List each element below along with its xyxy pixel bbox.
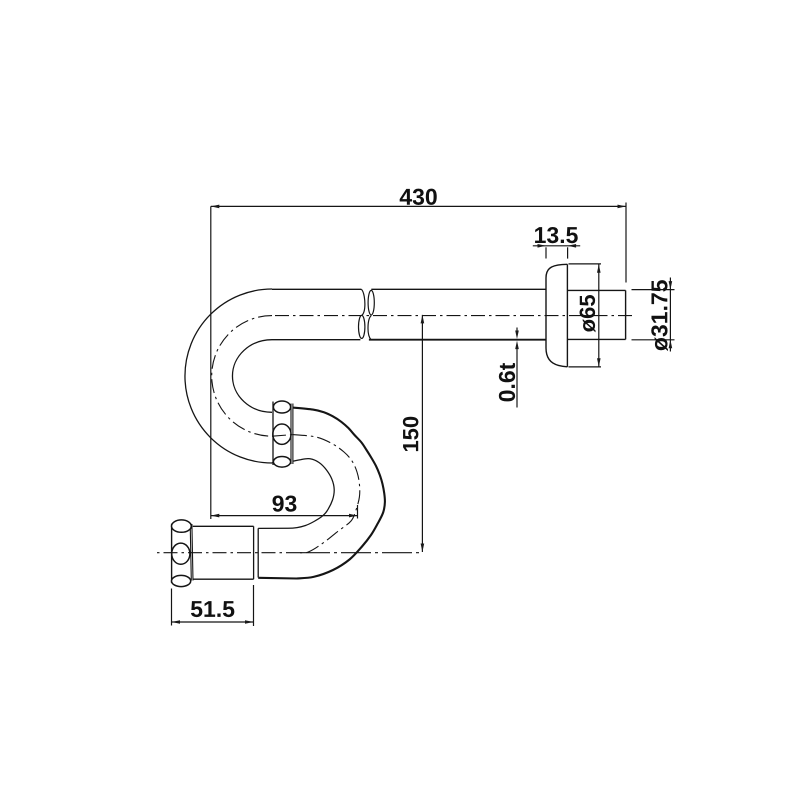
pipe top tube top edge (left of break) bbox=[272, 288, 361, 290]
dim phi65 text bbox=[580, 295, 596, 332]
dim phi65 arrows bbox=[597, 264, 601, 273]
middle connector middle ellipse bbox=[273, 424, 291, 444]
dim 430 text bbox=[400, 189, 437, 205]
bottom tube sleeve top edge bbox=[193, 525, 254, 527]
pipe stub right of flange top edge bbox=[567, 289, 625, 291]
step line inner bbox=[257, 528, 259, 577]
dim 13.5 lines bbox=[533, 246, 580, 259]
break symbol right piece half-ellipse bbox=[368, 316, 371, 340]
break symbol left piece ellipse bbox=[359, 315, 365, 338]
dim 13.5 text bbox=[535, 227, 578, 243]
dim 51.5 arrows bbox=[172, 620, 181, 624]
bottom tube sleeve bottom edge bbox=[193, 578, 254, 580]
dim 430 arrows bbox=[211, 205, 220, 209]
dim 51.5 lines bbox=[172, 585, 254, 626]
middle connector left edge bbox=[272, 402, 274, 466]
centerline top tube bbox=[155, 316, 632, 553]
wire loop to connector bottom bbox=[271, 462, 274, 464]
lower bend outer edge bbox=[258, 408, 385, 579]
dim 150 line bbox=[421, 315, 423, 552]
upper loop inner arc bbox=[232, 340, 272, 413]
dim phi31.75 lines bbox=[632, 278, 675, 352]
middle connector right edge double line bbox=[291, 404, 293, 465]
middle connector top ellipse bbox=[273, 401, 290, 413]
left fitting bottom ellipse bbox=[172, 575, 191, 586]
dim 0.6t leader lines bbox=[516, 328, 518, 408]
break symbol right piece ellipse bbox=[368, 290, 374, 315]
dim 150 text bbox=[403, 417, 419, 451]
step line outer bbox=[253, 526, 255, 579]
dim phi31.75 arrows bbox=[669, 281, 673, 290]
upper loop outer arc bbox=[185, 289, 272, 463]
flange dome profile bbox=[546, 264, 567, 367]
dim phi65 lines bbox=[569, 264, 602, 367]
break symbol left piece half-ellipse bbox=[361, 289, 365, 315]
flange right edge bbox=[566, 264, 568, 367]
dim 51.5 text bbox=[191, 601, 234, 617]
pipe top tube bottom edge (left of break) bbox=[272, 339, 360, 341]
dim 93 arrows bbox=[211, 514, 220, 518]
dim 150 arrows bbox=[421, 315, 425, 324]
dim 430 line bbox=[211, 203, 626, 520]
dim 93 text bbox=[273, 495, 297, 511]
left fitting left edge bbox=[171, 524, 173, 583]
pipe stub right of flange bottom edge bbox=[567, 338, 625, 340]
left fitting right edge double line bbox=[190, 524, 193, 581]
dim phi31.75 text bbox=[651, 280, 668, 351]
dim 93 lines bbox=[211, 505, 358, 519]
dim 13.5 arrows bbox=[538, 244, 547, 248]
dim 0.6t text bbox=[499, 363, 515, 401]
middle connector bottom ellipse bbox=[273, 457, 290, 468]
dim 0.6t arrows bbox=[515, 331, 519, 340]
pipe right end cap bbox=[625, 290, 627, 339]
pipe top tube bottom edge (break to flange) bbox=[369, 339, 546, 341]
left fitting middle ellipse bbox=[172, 543, 190, 564]
pipe top tube top edge (break to flange) bbox=[371, 288, 546, 290]
left fitting top ellipse bbox=[172, 520, 192, 532]
lower bend inner edge (island) bbox=[258, 459, 334, 529]
